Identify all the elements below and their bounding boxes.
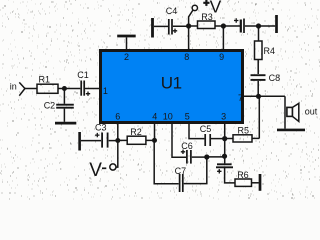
wire pin4: [154, 123, 156, 140]
svg-text:C8: C8: [269, 73, 281, 83]
wire pin3: [224, 123, 226, 163]
V- minus sign: [102, 167, 106, 169]
wire: [215, 25, 240, 27]
resistor R6: [235, 179, 252, 186]
svg-text:C3: C3: [95, 122, 107, 132]
svg-text:C2: C2: [44, 100, 56, 110]
svg-text:C6: C6: [181, 141, 193, 151]
svg-text:C4: C4: [166, 6, 178, 16]
node junction: [222, 136, 227, 141]
ground below C2: [55, 122, 76, 125]
resistor R1: [37, 84, 58, 93]
wire pin8: [188, 26, 190, 50]
node junction: [186, 23, 191, 28]
pin numbers: [103, 52, 243, 121]
svg-text:C5: C5: [200, 124, 212, 134]
resistor R3: [198, 21, 216, 29]
svg-text:V: V: [89, 160, 102, 181]
svg-text:1: 1: [103, 86, 108, 96]
node junction: [152, 138, 157, 143]
node junction: [256, 23, 261, 28]
capacitor C3: [78, 132, 81, 151]
wire speaker drop: [284, 96, 286, 128]
node junction: [62, 86, 67, 91]
capacitor C4: [151, 18, 154, 38]
wire pin10: [172, 123, 186, 157]
resistor R4: [258, 26, 260, 41]
speaker: [287, 107, 293, 116]
node junction: [256, 94, 261, 99]
capacitor C6: [186, 150, 188, 164]
resistor R5: [225, 138, 233, 140]
svg-text:out: out: [305, 106, 318, 116]
wire to V-: [116, 141, 118, 168]
svg-text:5: 5: [185, 112, 190, 122]
capacitor C5: [204, 134, 206, 146]
wire pin7 to output: [244, 95, 285, 97]
svg-text:R1: R1: [39, 75, 51, 85]
node junction: [222, 154, 227, 159]
node +V terminal: [192, 5, 197, 10]
capacitor C5a (unlabeled electrolytic top): [240, 20, 242, 33]
capacitor C6a (unlabeled electrolytic bottom): [217, 163, 232, 165]
+V plus sign: [203, 0, 209, 6]
wire pin2: [126, 37, 128, 50]
svg-text:10: 10: [163, 112, 173, 122]
svg-text:R2: R2: [130, 127, 142, 137]
wire pin9: [222, 26, 224, 50]
ground pin2: [117, 35, 136, 38]
svg-text:R5: R5: [238, 125, 250, 135]
IC U1: [101, 51, 243, 123]
node junction: [204, 154, 209, 159]
svg-text:in: in: [10, 81, 17, 91]
capacitor C7: [179, 174, 181, 192]
svg-text:3: 3: [221, 112, 226, 122]
svg-text:R4: R4: [264, 46, 276, 56]
svg-text:7: 7: [238, 93, 243, 103]
node V- terminal: [110, 164, 116, 170]
ground bar top right: [275, 15, 278, 33]
capacitor C8: [251, 74, 266, 76]
wire down-left rail: [154, 140, 179, 183]
ground bar right of R6: [259, 174, 262, 191]
svg-text:C1: C1: [77, 70, 89, 80]
svg-text:2: 2: [124, 52, 129, 62]
wire: [189, 25, 198, 27]
node junction: [221, 23, 226, 28]
svg-text:R6: R6: [237, 170, 249, 180]
ground below speaker: [277, 129, 305, 132]
capacitor C1: [80, 81, 82, 96]
input chevron: [19, 82, 25, 95]
svg-text:V: V: [210, 0, 222, 17]
svg-text:6: 6: [115, 112, 120, 122]
svg-text:U1: U1: [161, 74, 182, 93]
svg-text:C7: C7: [175, 166, 187, 176]
wire pin6: [117, 123, 119, 141]
wire down to R5: [258, 96, 260, 138]
capacitor C2: [63, 89, 65, 104]
resistor R2: [118, 139, 127, 141]
svg-text:8: 8: [184, 52, 189, 62]
svg-text:9: 9: [219, 52, 224, 62]
svg-text:4: 4: [152, 112, 157, 122]
wire pin5: [189, 123, 204, 139]
node junction: [115, 138, 120, 143]
